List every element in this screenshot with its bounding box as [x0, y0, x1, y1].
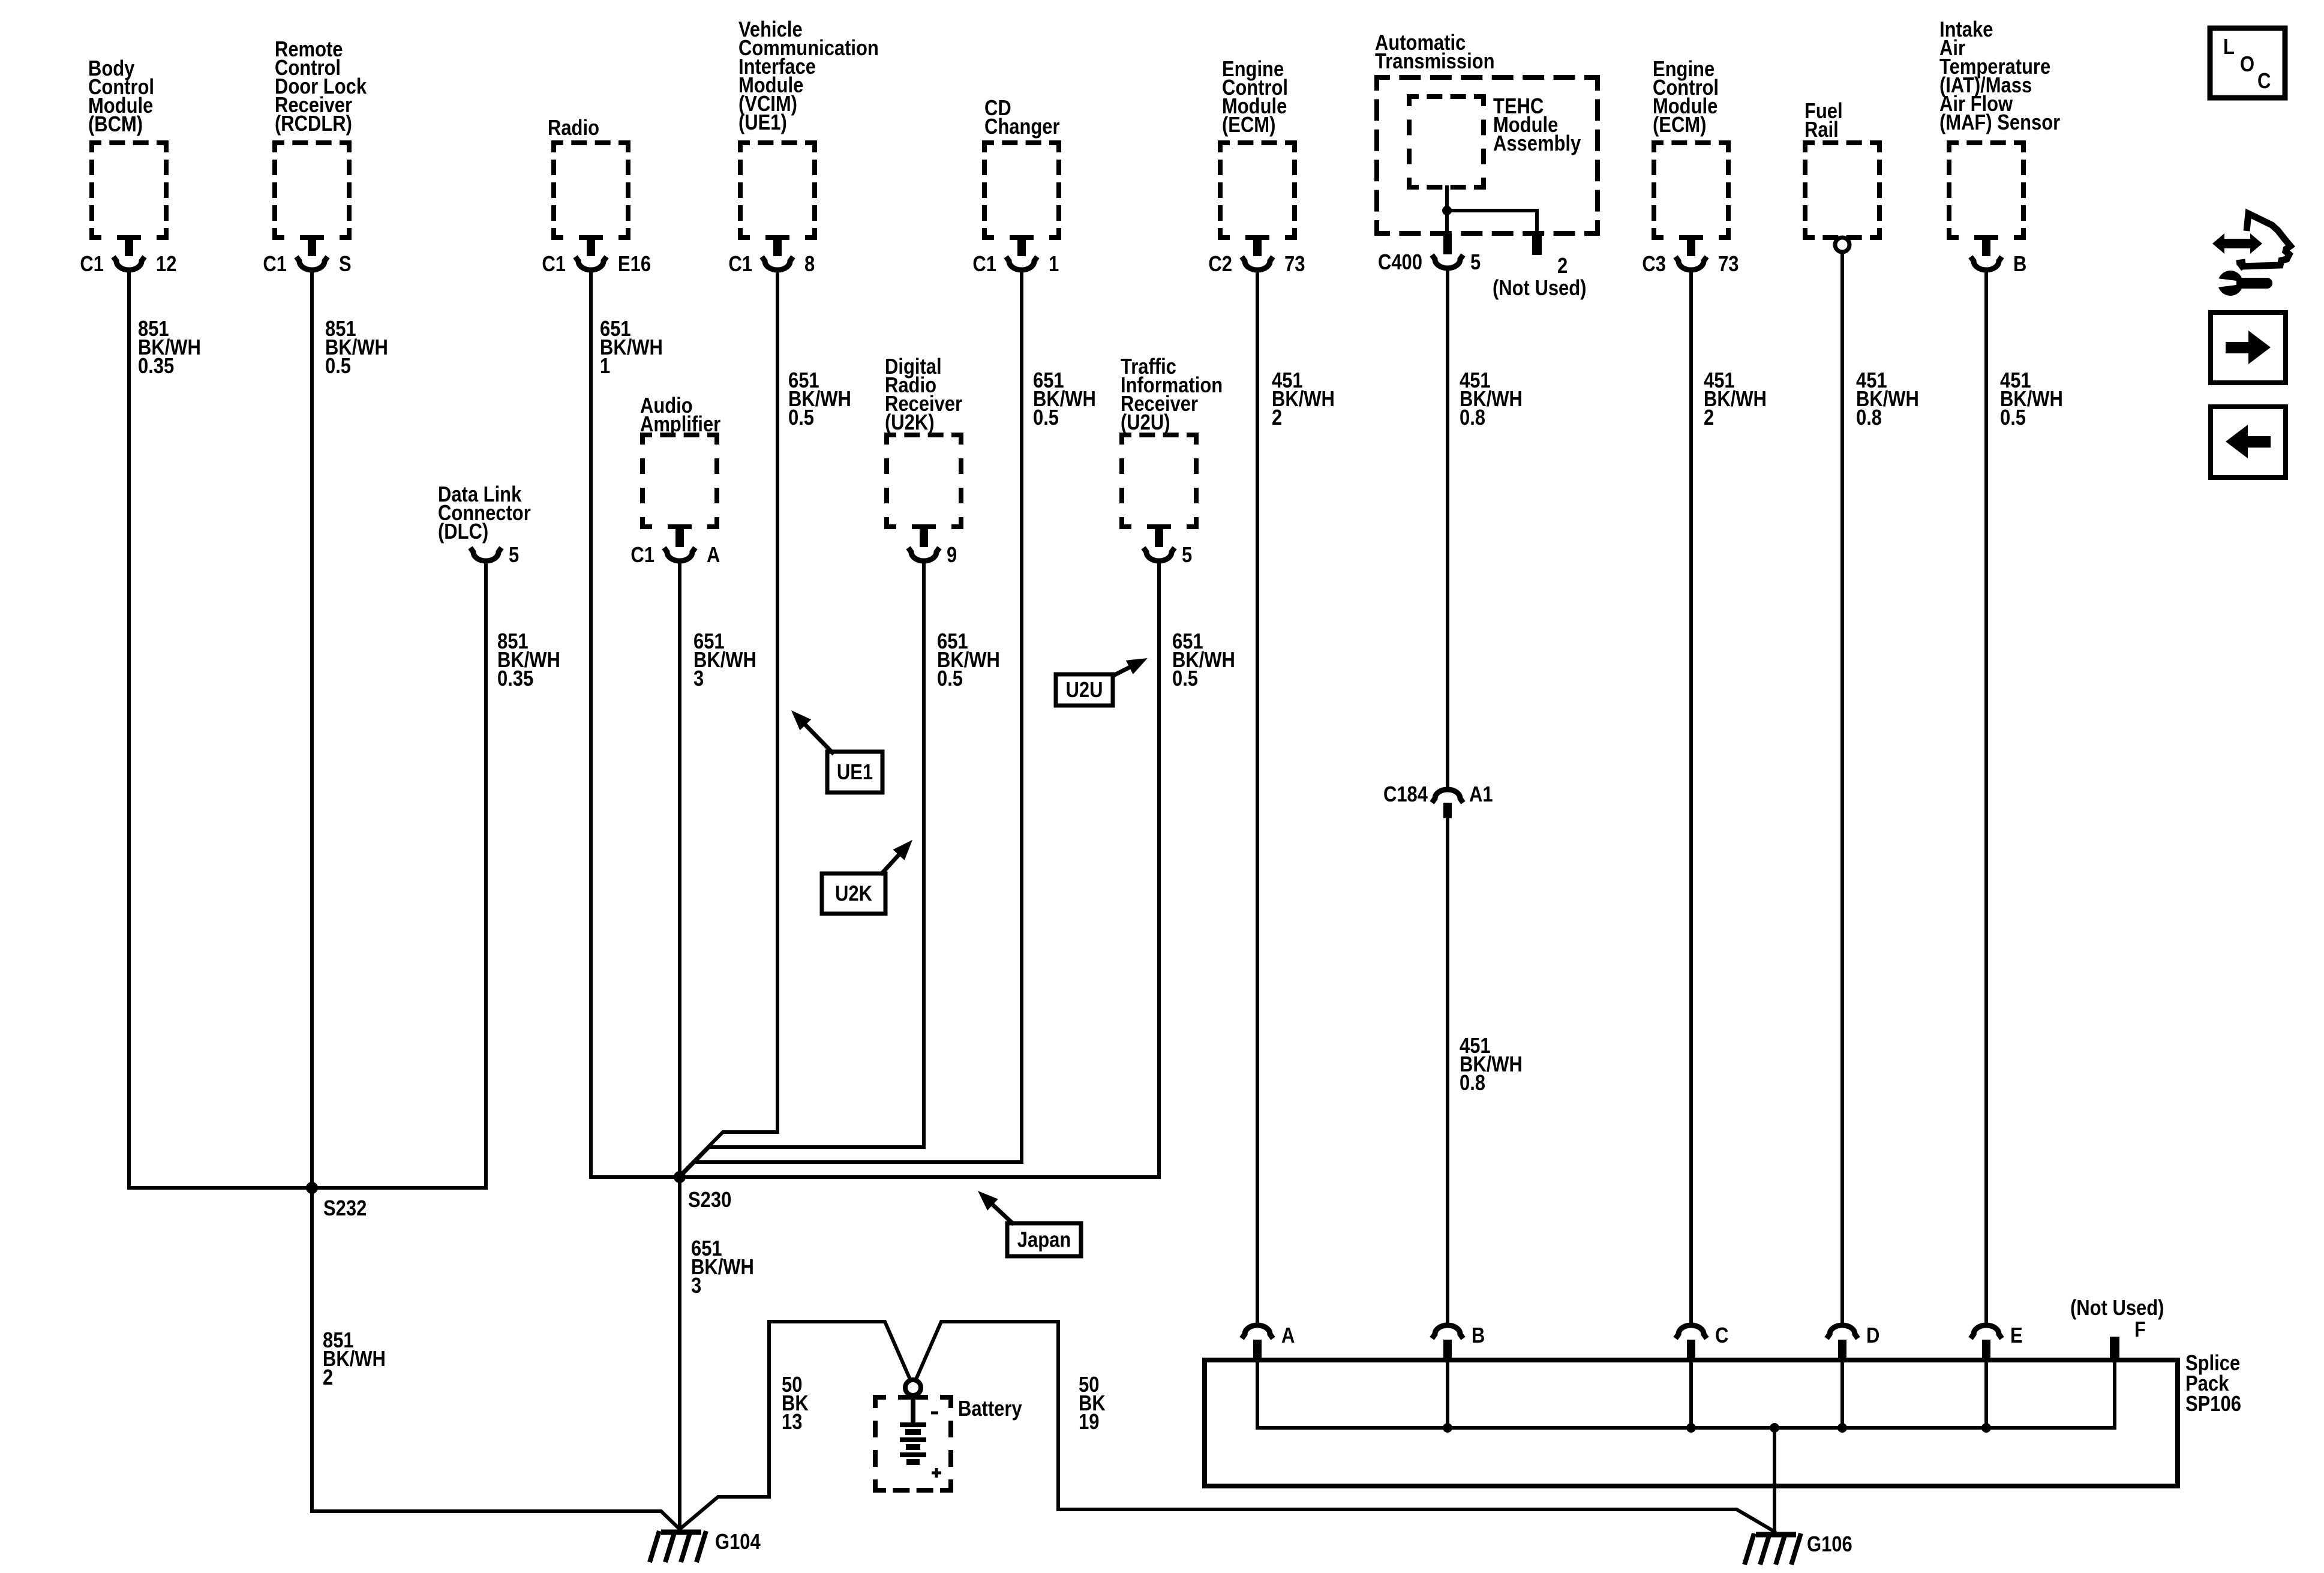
wire 451 BK/WH 0.8 (Fuel Rail to splice pack D): [1840, 252, 1844, 1323]
wire 651 BK/WH 1 (Radio to S230): [591, 272, 680, 1177]
wire 451 BK/WH 0.5 (MAF to splice pack E): [1984, 272, 1988, 1323]
wire 451 BK/WH 0.8 (C400 to C184): [1446, 271, 1449, 786]
wire G106 stem: [1773, 1428, 1776, 1532]
wire 651 BK/WH 0.5 (DRR to S230): [680, 563, 924, 1177]
callout UE1 with arrow: [791, 710, 882, 792]
battery negative sign: [931, 1412, 938, 1415]
svg-text:13: 13: [782, 1410, 802, 1434]
callout U2U with arrow: [1056, 658, 1148, 706]
splice S230: [674, 1171, 686, 1183]
svg-text:S232: S232: [323, 1197, 367, 1221]
svg-text:E: E: [2010, 1324, 2023, 1348]
wire splice E internal: [1984, 1360, 1988, 1428]
svg-text:0.35: 0.35: [497, 667, 533, 691]
connector C400 pin 5 (Automatic Transmission): [1432, 235, 1463, 268]
junction splice E: [1981, 1423, 1991, 1433]
module CD Changer box: [984, 143, 1059, 238]
svg-text:C400: C400: [1378, 251, 1422, 275]
svg-text:F: F: [2134, 1318, 2146, 1342]
svg-text:(ECM): (ECM): [1222, 113, 1275, 137]
module ECM box C3: [1654, 143, 1728, 238]
module TIR box U2U: [1122, 435, 1196, 527]
svg-text:5: 5: [1182, 544, 1192, 568]
callout U2K with arrow: [822, 840, 912, 914]
svg-text:0.5: 0.5: [937, 667, 963, 691]
svg-text:SP106: SP106: [2185, 1392, 2241, 1416]
module RCDLR box: [275, 143, 349, 238]
svg-text:C: C: [2257, 70, 2271, 94]
svg-text:C1: C1: [80, 253, 104, 277]
svg-text:(BCM): (BCM): [88, 113, 143, 137]
svg-text:1: 1: [600, 355, 610, 379]
svg-text:C1: C1: [263, 253, 287, 277]
svg-text:(RCDLR): (RCDLR): [275, 112, 352, 136]
svg-text:3: 3: [691, 1274, 701, 1298]
LOC legend box: [2210, 28, 2285, 98]
splice pack terminal F (Not Used): [2110, 1337, 2119, 1360]
wire TEHC module to C400 pin 5: [1445, 187, 1449, 235]
svg-text:S230: S230: [688, 1188, 731, 1212]
svg-text:E16: E16: [618, 253, 651, 277]
svg-text:12: 12: [156, 253, 176, 277]
svg-text:D: D: [1866, 1324, 1879, 1348]
svg-text:(U2K): (U2K): [885, 411, 935, 435]
svg-text:0.35: 0.35: [138, 355, 174, 379]
wire 651 BK/WH 0.5 (TIR to S230): [680, 563, 1159, 1177]
wire 50 BK 19 (battery to G106): [916, 1322, 1774, 1532]
svg-text:S: S: [339, 253, 352, 277]
svg-text:C1: C1: [542, 253, 566, 277]
svg-text:C1: C1: [728, 253, 752, 277]
ring terminal (Fuel Rail): [1835, 238, 1849, 252]
battery positive sign: [932, 1468, 941, 1478]
svg-text:C1: C1: [972, 253, 996, 277]
svg-text:73: 73: [1284, 253, 1305, 277]
svg-text:Changer: Changer: [984, 115, 1060, 139]
svg-text:G106: G106: [1807, 1533, 1852, 1557]
wire splice B internal: [1446, 1360, 1449, 1428]
module ECM box C2: [1220, 143, 1295, 238]
splice pack terminal B: [1432, 1325, 1463, 1360]
pin 2 (Not Used) Automatic Transmission: [1532, 233, 1542, 255]
svg-text:(Not Used): (Not Used): [2070, 1296, 2164, 1320]
splice pack terminal C: [1676, 1325, 1707, 1360]
splice pack SP106 box: [1205, 1360, 2178, 1486]
svg-text:19: 19: [1079, 1410, 1099, 1434]
svg-text:0.8: 0.8: [1856, 406, 1882, 430]
svg-text:0.5: 0.5: [1172, 667, 1198, 691]
connector C1 pin S (RCDLR): [296, 238, 328, 270]
svg-text:0.8: 0.8: [1460, 406, 1485, 430]
svg-text:(MAF) Sensor: (MAF) Sensor: [1939, 111, 2060, 135]
svg-text:0.5: 0.5: [788, 406, 814, 430]
connector C1 pin 12 (BCM): [113, 238, 145, 270]
wire TEHC to pin 2 (Not Used): [1447, 211, 1537, 233]
wire 50 BK 13 (battery to G104) upper: [680, 1322, 910, 1529]
svg-text:Transmission: Transmission: [1375, 50, 1495, 74]
legend arrow box (left): [2211, 407, 2286, 478]
svg-text:9: 9: [947, 544, 957, 568]
svg-text:5: 5: [1470, 251, 1481, 275]
svg-text:2: 2: [1272, 406, 1282, 430]
svg-text:5: 5: [509, 544, 519, 568]
wire 451 BK/WH 0.8 (C184 to splice pack B): [1446, 818, 1449, 1323]
module DRR box U2K: [887, 435, 961, 527]
connector C1 pin 1 (CD Changer): [1006, 238, 1037, 270]
svg-text:(U2U): (U2U): [1121, 411, 1170, 435]
module TEHC box: [1409, 97, 1484, 187]
module Audio Amplifier box: [642, 435, 717, 527]
junction splice C: [1686, 1423, 1696, 1433]
ground G106: [1744, 1533, 1801, 1565]
svg-text:U2U: U2U: [1066, 679, 1103, 703]
connector C1 pin E16 (Radio): [575, 238, 606, 270]
svg-text:C2: C2: [1208, 253, 1232, 277]
svg-text:3: 3: [693, 667, 704, 691]
connector C1 pin 8 (VCIM): [762, 238, 793, 270]
svg-text:A: A: [1281, 1324, 1295, 1348]
junction G106 drop: [1770, 1423, 1779, 1433]
svg-text:0.5: 0.5: [2000, 406, 2026, 430]
splice pack terminal A: [1242, 1325, 1273, 1360]
svg-text:0.5: 0.5: [325, 355, 351, 379]
svg-text:L: L: [2223, 35, 2235, 59]
svg-text:B: B: [1472, 1324, 1485, 1348]
wire 851 BK/WH 0.5 (RCDLR through S232 to G104): [312, 272, 680, 1529]
connector C184 pin A1: [1432, 789, 1463, 818]
svg-text:1: 1: [1049, 253, 1059, 277]
engine service icon (double arrow, engine outline, wrench): [2212, 214, 2290, 296]
svg-text:C3: C3: [1642, 253, 1666, 277]
svg-text:O: O: [2240, 53, 2254, 77]
svg-text:8: 8: [804, 253, 815, 277]
svg-text:Rail: Rail: [1804, 118, 1839, 142]
legend arrow box (right): [2211, 313, 2286, 383]
module BCM box: [92, 143, 166, 238]
connector C2 pin 73 (ECM): [1242, 238, 1273, 270]
svg-text:C184: C184: [1383, 783, 1428, 807]
wire 851 BK/WH 0.35 (BCM to S232): [129, 272, 312, 1188]
battery symbol: [900, 1395, 926, 1462]
module Automatic Transmission box: [1377, 77, 1598, 233]
wire 651 BK/WH 0.5 (VCIM to S230): [680, 272, 777, 1176]
svg-text:B: B: [2013, 253, 2026, 277]
splice pack internal bus: [1257, 1360, 2115, 1428]
svg-text:Battery: Battery: [958, 1397, 1022, 1421]
junction splice D: [1837, 1423, 1847, 1433]
module VCIM box: [740, 143, 815, 238]
wire 451 BK/WH 2 (ECM C3 to splice pack C): [1689, 272, 1693, 1323]
svg-text:Radio: Radio: [548, 116, 599, 140]
module Fuel Rail box: [1805, 143, 1879, 238]
svg-text:73: 73: [1718, 253, 1739, 277]
svg-text:A1: A1: [1469, 783, 1493, 807]
connector B (MAF sensor): [1971, 238, 2002, 270]
connector pin 9 (DRR): [908, 527, 939, 561]
wire splice D internal: [1840, 1360, 1844, 1428]
connector pin 5 (DLC): [470, 548, 502, 561]
wire 451 BK/WH 2 (ECM C2 to splice pack A): [1256, 272, 1259, 1323]
connector C3 pin 73 (ECM): [1676, 238, 1707, 270]
module MAF sensor box: [1949, 143, 2023, 238]
wire splice C internal: [1689, 1360, 1693, 1428]
svg-text:(Not Used): (Not Used): [1493, 277, 1586, 301]
connector C1 pin A (Audio Amplifier): [664, 527, 695, 561]
svg-text:2: 2: [323, 1366, 333, 1390]
connector pin 5 (TIR): [1143, 527, 1175, 561]
svg-text:C1: C1: [630, 544, 654, 568]
wire 651 BK/WH 0.5 (CD Changer to S230): [680, 272, 1022, 1177]
svg-text:C: C: [1715, 1324, 1728, 1348]
wire 851 BK/WH 0.35 (DLC to S232): [312, 563, 486, 1188]
svg-text:(DLC): (DLC): [438, 520, 488, 544]
svg-text:(UE1): (UE1): [738, 111, 787, 135]
junction splice B: [1443, 1423, 1452, 1433]
svg-text:0.5: 0.5: [1033, 406, 1059, 430]
svg-text:A: A: [707, 544, 720, 568]
svg-text:Japan: Japan: [1017, 1228, 1071, 1252]
svg-text:G104: G104: [715, 1530, 761, 1554]
svg-text:0.8: 0.8: [1460, 1071, 1485, 1095]
splice pack terminal E: [1971, 1325, 2002, 1360]
svg-text:(ECM): (ECM): [1653, 113, 1706, 137]
callout Japan with arrow: [978, 1191, 1081, 1256]
ground G104: [650, 1531, 706, 1562]
battery negative terminal ring: [905, 1380, 921, 1395]
svg-text:Assembly: Assembly: [1493, 132, 1581, 156]
svg-text:UE1: UE1: [837, 761, 873, 785]
splice pack terminal D: [1827, 1325, 1858, 1360]
wire 651 BK/WH 3 (Audio Amp through S230 to G104): [678, 563, 681, 1529]
svg-text:U2K: U2K: [835, 882, 872, 906]
junction inside automatic transmission: [1442, 206, 1452, 215]
battery box: [875, 1397, 951, 1490]
svg-text:2: 2: [1704, 406, 1714, 430]
svg-text:2: 2: [1557, 254, 1568, 278]
splice S232: [306, 1182, 318, 1194]
module Radio box: [554, 143, 628, 238]
